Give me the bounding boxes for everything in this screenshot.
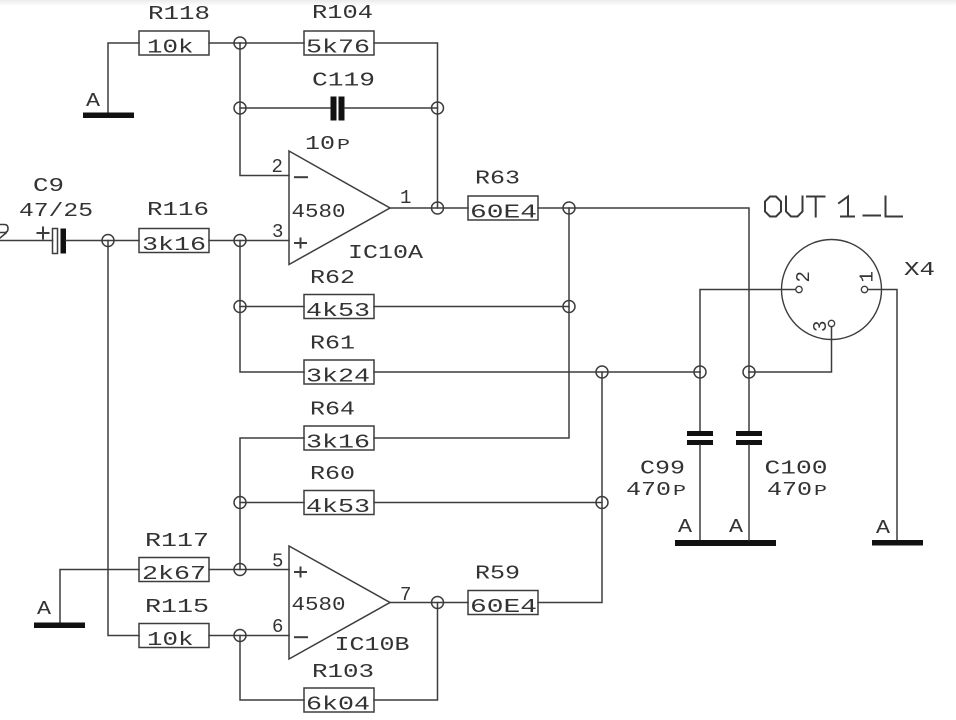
node junction (240,43)	[234, 37, 246, 49]
svg-text:C100: C100	[765, 458, 828, 480]
resistor R117	[139, 530, 209, 585]
node junction (700,372)	[694, 366, 706, 378]
node junction (437.5,208)	[432, 202, 444, 214]
svg-text:A: A	[86, 90, 101, 112]
wire R61 right	[374, 371, 700, 373]
wire R118 left to ground	[108, 43, 139, 113]
svg-text:IC10A: IC10A	[348, 242, 424, 264]
wire input net (left edge)	[0, 240, 53, 242]
svg-text:X4: X4	[904, 259, 935, 281]
wire R115 to pin 6	[209, 635, 289, 637]
wire trunk x=240 down to R103 left	[240, 636, 304, 701]
plus marker IC10A	[295, 242, 306, 244]
wire op-amp A output	[390, 207, 468, 209]
svg-text:3: 3	[810, 321, 832, 332]
wire R60 left	[240, 502, 304, 504]
connector body circle	[782, 240, 882, 340]
wire connector pin 3 down to node	[749, 327, 832, 372]
wire trunk x=108 down to R115	[108, 241, 139, 636]
svg-text:C119: C119	[312, 70, 375, 92]
svg-text:10k: 10k	[147, 629, 194, 651]
node junction (240,569.5)	[234, 564, 246, 576]
svg-text:4k53: 4k53	[306, 300, 370, 322]
svg-text:2: 2	[272, 156, 283, 178]
wire node to C100 top	[748, 372, 750, 431]
resistor R118	[139, 3, 210, 59]
svg-text:R63: R63	[475, 168, 520, 190]
svg-text:A: A	[876, 517, 891, 539]
resistor R61	[304, 333, 374, 388]
svg-text:R61: R61	[310, 333, 355, 355]
svg-text:3k16: 3k16	[142, 234, 206, 256]
wire connector pin 2 to node	[700, 290, 796, 373]
svg-text:1: 1	[857, 271, 879, 282]
minus marker IC10A	[295, 176, 307, 178]
connector X4 OUT1_L	[765, 197, 935, 340]
pin 2 pad	[796, 286, 802, 292]
wire C119 right	[345, 107, 438, 109]
resistor R103	[304, 661, 374, 716]
node junction (569,306.5)	[563, 301, 575, 313]
svg-text:3: 3	[272, 221, 283, 243]
wire R117 to pin 5	[209, 569, 289, 571]
wire vertical x=602 down to R59 right	[538, 372, 602, 603]
svg-text:R117: R117	[145, 530, 209, 552]
svg-text:2: 2	[793, 271, 815, 282]
wire node to C99 top	[699, 372, 701, 431]
svg-text:5: 5	[272, 551, 283, 573]
svg-text:5k76: 5k76	[306, 37, 370, 59]
resistor R104	[304, 2, 374, 59]
svg-text:R118: R118	[148, 3, 210, 25]
node junction (437.5,602.5)	[432, 597, 444, 609]
svg-text:3k24: 3k24	[306, 366, 370, 388]
svg-text:10k: 10k	[147, 37, 194, 59]
node junction (437.5,108)	[432, 102, 444, 114]
wire connector pin 1 to ground	[868, 290, 897, 541]
svg-text:R104: R104	[312, 2, 373, 24]
svg-text:R103: R103	[312, 661, 374, 683]
svg-text:47/25: 47/25	[19, 200, 93, 222]
svg-text:C9: C9	[33, 175, 64, 197]
wire op-amp B output	[390, 602, 468, 604]
node junction (240,108)	[234, 102, 246, 114]
node junction (240,240.5)	[234, 235, 246, 247]
wire inverting trunk to pin 2	[240, 43, 289, 176]
node junction (602,372)	[596, 366, 608, 378]
node junction (240,502.5)	[234, 497, 246, 509]
resistor R115	[139, 596, 209, 651]
svg-text:P: P	[814, 483, 827, 500]
wire R64 left trunk down to pin5 junction	[240, 438, 304, 570]
svg-text:6: 6	[272, 616, 283, 638]
capacitor C9 (polarized)	[19, 175, 93, 254]
wire C119 left	[240, 107, 331, 109]
op-amp U IC10B	[272, 546, 411, 659]
pin 1 pad	[861, 286, 867, 292]
svg-text:2k67: 2k67	[142, 563, 206, 585]
pin 3 pad	[828, 320, 834, 326]
capacitor C119	[305, 70, 375, 156]
resistor R62	[304, 267, 374, 322]
ground A A (shared C99 C100)	[675, 516, 776, 546]
resistor R60	[304, 463, 374, 518]
svg-text:3k16: 3k16	[306, 432, 370, 454]
wire R103 right up to output junction	[374, 603, 438, 701]
svg-text:4k53: 4k53	[306, 496, 370, 518]
svg-text:A: A	[729, 516, 744, 538]
svg-text:R59: R59	[475, 563, 520, 585]
svg-text:60E4: 60E4	[470, 202, 537, 224]
wire vertical x=569 to R64 right	[374, 208, 569, 438]
ground A (right)	[872, 517, 923, 546]
resistor R64	[304, 399, 374, 454]
svg-text:1: 1	[400, 187, 411, 209]
ground A (bottom-left)	[34, 598, 85, 628]
node junction (569,208)	[563, 202, 575, 214]
wire R62 right	[374, 306, 569, 308]
plus marker IC10B	[295, 571, 306, 573]
node junction (749,372)	[743, 366, 755, 378]
svg-text:P: P	[337, 137, 350, 154]
svg-text:470: 470	[626, 479, 671, 501]
svg-text:470: 470	[767, 479, 812, 501]
resistor R116	[139, 199, 209, 256]
capacitor C99	[626, 431, 713, 501]
svg-text:4580: 4580	[292, 201, 346, 223]
svg-text:4580: 4580	[292, 594, 346, 616]
wire R62 left	[240, 306, 304, 308]
node junction (240,635.5)	[234, 630, 246, 642]
svg-text:R64: R64	[310, 399, 355, 421]
node junction (108,240.5)	[102, 235, 114, 247]
svg-text:6k04: 6k04	[306, 694, 370, 716]
net label OUT1_L (stroked glyphs)	[765, 197, 902, 217]
wire R116 to pin 3	[209, 240, 289, 242]
node junction (602,502.5)	[596, 497, 608, 509]
minus marker IC10B	[295, 636, 307, 638]
svg-text:R62: R62	[310, 267, 355, 289]
svg-text:A: A	[37, 598, 52, 620]
partial net-label glyph 9 (clipped at left edge)	[0, 225, 8, 239]
svg-text:IC10B: IC10B	[335, 634, 410, 656]
capacitor C100	[736, 431, 828, 501]
wire R117 left to ground	[60, 570, 139, 623]
svg-text:A: A	[678, 516, 693, 538]
op-amp U IC10A	[272, 151, 424, 265]
wire C100 bottom to ground	[748, 445, 750, 540]
wire C99 bottom to ground	[699, 445, 701, 540]
wire R104 right down to output row	[374, 43, 438, 208]
svg-text:60E4: 60E4	[470, 596, 537, 618]
wire R63 right to connector corner	[538, 208, 749, 372]
resistor R59	[468, 563, 538, 619]
node junction (240,306.5)	[234, 301, 246, 313]
svg-text:R116: R116	[147, 199, 209, 221]
wire C9 to R116	[66, 240, 139, 242]
wire R60 right	[374, 502, 602, 504]
svg-text:P: P	[673, 483, 686, 500]
svg-text:R115: R115	[145, 596, 209, 618]
svg-text:C99: C99	[640, 458, 685, 480]
ground A (top-left)	[83, 90, 134, 118]
svg-text:10: 10	[305, 133, 335, 155]
wire R118 to R104 row	[209, 42, 304, 44]
wire trunk x=240 to R61 left	[240, 241, 304, 373]
svg-text:R60: R60	[310, 463, 355, 485]
resistor R63	[468, 168, 538, 224]
